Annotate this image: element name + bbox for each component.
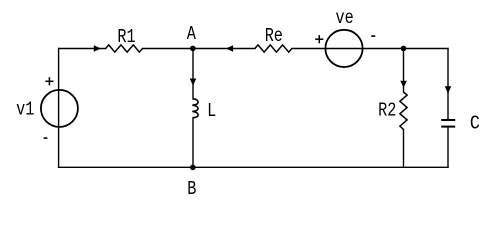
svg-text:A: A bbox=[187, 25, 197, 46]
node A junction dot bbox=[190, 46, 196, 52]
svg-text:B: B bbox=[187, 180, 196, 201]
wire Re to junction (through ve) bbox=[292, 48, 404, 50]
arrow left (current toward node A) bbox=[226, 45, 233, 52]
wire junction to top-right corner bbox=[404, 48, 449, 50]
resistor R1 bbox=[106, 45, 143, 52]
svg-text:v1: v1 bbox=[16, 100, 34, 121]
arrow down (current into C) bbox=[445, 86, 452, 93]
junction dot ve/R2 bbox=[401, 46, 407, 52]
wire node A to Re bbox=[193, 48, 255, 50]
v1 plus sign bbox=[45, 77, 53, 85]
arrow right (current into R1) bbox=[94, 45, 101, 52]
wire R1 to node A bbox=[143, 48, 193, 50]
wire right vertical to C top plate bbox=[447, 49, 449, 121]
svg-text:R1: R1 bbox=[117, 28, 135, 49]
svg-text:ve: ve bbox=[335, 9, 353, 30]
wire L down to node B bbox=[192, 118, 194, 168]
voltage source ve bbox=[325, 30, 362, 67]
wire C bottom plate to bottom bbox=[447, 127, 449, 168]
wire bottom horizontal bbox=[59, 166, 448, 168]
inductor L bbox=[192, 99, 198, 118]
wire top-left horizontal (v1 to R1) bbox=[59, 48, 106, 50]
svg-text:C: C bbox=[470, 114, 480, 135]
svg-text:Re: Re bbox=[265, 27, 283, 48]
resistor Re bbox=[255, 45, 292, 52]
v1 minus sign bbox=[44, 137, 48, 139]
resistor R2 bbox=[400, 92, 407, 130]
capacitor C bbox=[441, 120, 455, 127]
wire junction down to R2 bbox=[403, 49, 405, 93]
node B junction dot bbox=[190, 165, 196, 171]
svg-text:L: L bbox=[207, 102, 216, 123]
wire R2 to bottom bbox=[403, 130, 405, 168]
wire left vertical (through v1) bbox=[58, 49, 60, 168]
arrow down (current into R2) bbox=[400, 81, 407, 88]
svg-text:R2: R2 bbox=[378, 101, 396, 122]
ve plus sign bbox=[315, 35, 323, 43]
arrow down (current into L) bbox=[190, 79, 197, 86]
voltage source v1 bbox=[41, 90, 78, 127]
ve minus sign bbox=[371, 35, 375, 37]
wire node A down to L bbox=[192, 49, 194, 100]
